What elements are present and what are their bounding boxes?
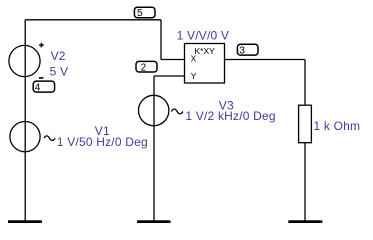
wire output multiplier to net 3 [225, 59, 306, 61]
node 2 box [136, 61, 157, 72]
svg-text:1 V/V/0 V: 1 V/V/0 V [177, 28, 230, 42]
voltage source V2 circle [9, 45, 40, 76]
svg-text:Y: Y [191, 71, 197, 81]
ground middle [137, 220, 171, 223]
resistor R1 body [299, 105, 312, 143]
svg-text:K*XY: K*XY [195, 46, 216, 56]
node 3 box [237, 44, 258, 55]
ground left [8, 220, 42, 223]
wire vertical through V3 to ground [153, 76, 155, 222]
wire horizontal into X input [161, 59, 185, 61]
svg-text:X: X [191, 53, 197, 63]
svg-text:1 V/50 Hz/0 Deg: 1 V/50 Hz/0 Deg [57, 135, 148, 149]
node 5 box [134, 7, 155, 18]
voltage source V1 circle [10, 122, 40, 152]
svg-text:5: 5 [137, 8, 143, 19]
V2 minus sign [39, 77, 44, 79]
wire vertical down to resistor top [304, 60, 306, 106]
ground right [288, 220, 322, 223]
voltage source V3 circle [139, 95, 169, 125]
svg-text:2: 2 [141, 62, 147, 73]
svg-text:1 V/2 kHz/0 Deg: 1 V/2 kHz/0 Deg [185, 109, 275, 123]
svg-text:1 k Ohm: 1 k Ohm [314, 119, 361, 133]
svg-text:5 V: 5 V [50, 64, 69, 78]
V1 sine squiggle [44, 136, 55, 141]
wire vertical from net 5 down to X input [160, 20, 162, 60]
svg-text:4: 4 [35, 82, 41, 93]
multiplier U1 body [185, 44, 225, 84]
wire Y input horizontal [154, 75, 185, 77]
wire top horizontal net 5 [25, 19, 161, 21]
V2 plus sign [39, 43, 44, 48]
wire resistor bottom to ground [304, 143, 306, 222]
svg-text:V2: V2 [51, 49, 66, 63]
svg-text:3: 3 [239, 45, 245, 56]
wire left vertical through V2 and V1 to ground [24, 20, 26, 222]
V3 sine squiggle [171, 109, 183, 114]
node 4 box [33, 81, 54, 92]
